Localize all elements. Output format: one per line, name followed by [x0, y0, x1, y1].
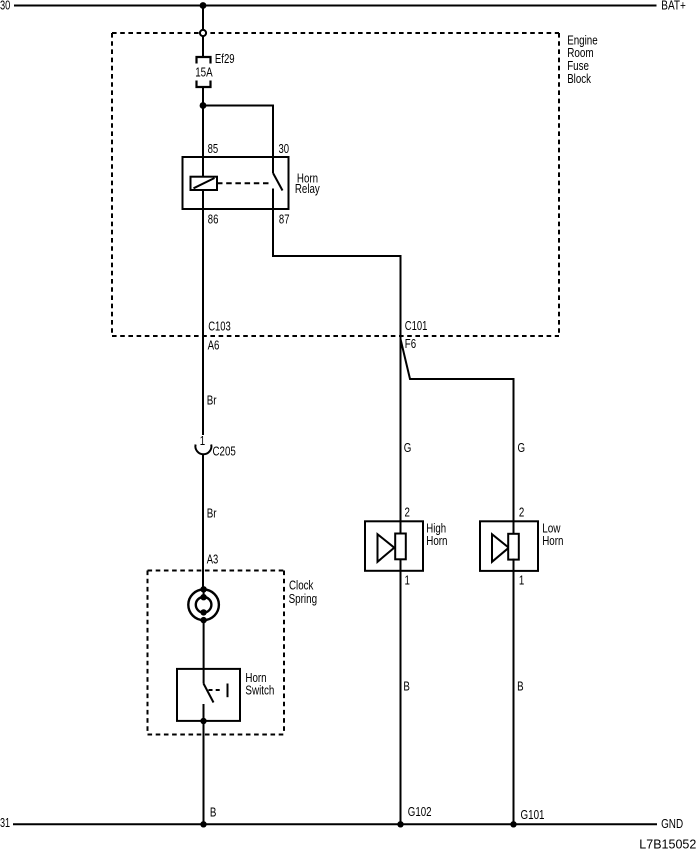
svg-text:1: 1	[519, 574, 524, 588]
horn switch lower contact	[203, 704, 205, 721]
svg-text:30: 30	[279, 142, 290, 156]
svg-text:G102: G102	[408, 805, 432, 819]
horn switch button bar	[227, 684, 229, 698]
clock spring inner circle	[196, 597, 212, 613]
svg-text:31: 31	[0, 816, 10, 830]
clock spring outer circle	[188, 590, 219, 621]
svg-text:87: 87	[279, 212, 290, 226]
low horn speaker triangle	[492, 534, 509, 562]
svg-text:B: B	[517, 679, 524, 693]
Low Horn box	[480, 521, 538, 571]
connector C205 arc	[195, 445, 211, 455]
High Horn box	[365, 521, 423, 571]
wire high horn to ground rail	[400, 559, 402, 824]
svg-text:Horn: Horn	[542, 534, 563, 548]
junction dot below fuse	[200, 102, 207, 109]
node 30 bus (top rail)	[14, 5, 657, 7]
low horn coil rect	[508, 534, 519, 560]
relay switch pin30 contact	[272, 157, 274, 173]
horn switch dashed actuator	[209, 689, 223, 691]
wire low horn to ground rail	[513, 559, 515, 825]
svg-text:BAT+: BAT+	[661, 0, 686, 12]
svg-text:F6: F6	[405, 337, 416, 351]
high horn speaker triangle	[378, 534, 395, 562]
wire from rail to fuse block connector	[202, 6, 204, 31]
svg-text:L7B15052: L7B15052	[639, 838, 696, 850]
svg-text:Spring: Spring	[289, 592, 318, 606]
wire horn switch to ground rail	[203, 721, 205, 824]
wire connector to fuse	[202, 37, 204, 58]
clock spring wire top segment	[203, 589, 205, 597]
svg-text:A3: A3	[207, 552, 219, 566]
relay switch pin87 contact	[272, 189, 274, 210]
svg-text:15A: 15A	[195, 66, 213, 80]
svg-text:2: 2	[405, 506, 410, 520]
junction dot on rail	[200, 2, 207, 9]
wire branch to relay pin 30	[203, 106, 273, 158]
svg-text:Clock: Clock	[289, 579, 314, 593]
svg-text:C103: C103	[208, 319, 231, 333]
wire clock spring to horn switch	[203, 620, 205, 684]
svg-text:G101: G101	[521, 808, 545, 822]
svg-text:Block: Block	[567, 72, 591, 86]
svg-text:C101: C101	[405, 319, 428, 333]
svg-text:Br: Br	[207, 506, 217, 520]
svg-text:2: 2	[519, 506, 524, 520]
svg-text:1: 1	[200, 434, 205, 448]
svg-text:Horn: Horn	[426, 534, 447, 548]
wire coil to C103	[202, 190, 204, 336]
svg-text:Br: Br	[207, 393, 217, 407]
svg-text:1: 1	[405, 574, 410, 588]
svg-text:G: G	[518, 441, 526, 455]
svg-text:C205: C205	[213, 445, 236, 459]
ground junction dots	[200, 821, 516, 827]
wire C101/F6 down to high horn	[400, 336, 402, 534]
svg-text:B: B	[210, 806, 217, 820]
relay dashed actuator link	[217, 182, 271, 184]
wire C205 to clock spring	[202, 455, 204, 591]
clock spring dots	[200, 586, 206, 623]
Engine Room Fuse Block dashed box	[112, 33, 559, 336]
wire branch to low horn	[401, 339, 514, 534]
relay switch blade	[273, 173, 283, 191]
svg-text:Ef29: Ef29	[215, 52, 235, 66]
Horn Switch box	[177, 669, 240, 721]
fuse Ef29 top bracket	[197, 57, 211, 64]
wire C103/A6 down to clock spring	[202, 336, 204, 435]
relay coil	[191, 177, 218, 190]
relay box	[183, 157, 289, 209]
Clock Spring dashed box	[148, 571, 285, 735]
junction dot at horn switch box bottom	[200, 718, 206, 724]
high horn coil rect	[395, 534, 406, 560]
connector circle into fuse block	[200, 30, 206, 36]
svg-text:G: G	[404, 441, 412, 455]
svg-text:A6: A6	[208, 339, 220, 353]
svg-text:Relay: Relay	[295, 182, 320, 196]
svg-text:B: B	[403, 679, 410, 693]
horn switch blade	[204, 684, 214, 703]
wire pin87 to C101	[273, 209, 401, 336]
wire fuse to relay coil	[202, 87, 204, 177]
svg-text:Switch: Switch	[245, 684, 274, 698]
svg-text:86: 86	[208, 212, 219, 226]
svg-text:GND: GND	[661, 817, 683, 831]
svg-text:85: 85	[208, 142, 219, 156]
node 31 bus (ground rail)	[13, 823, 657, 825]
svg-text:30: 30	[0, 0, 10, 12]
fuse Ef29 bottom bracket	[197, 81, 211, 88]
